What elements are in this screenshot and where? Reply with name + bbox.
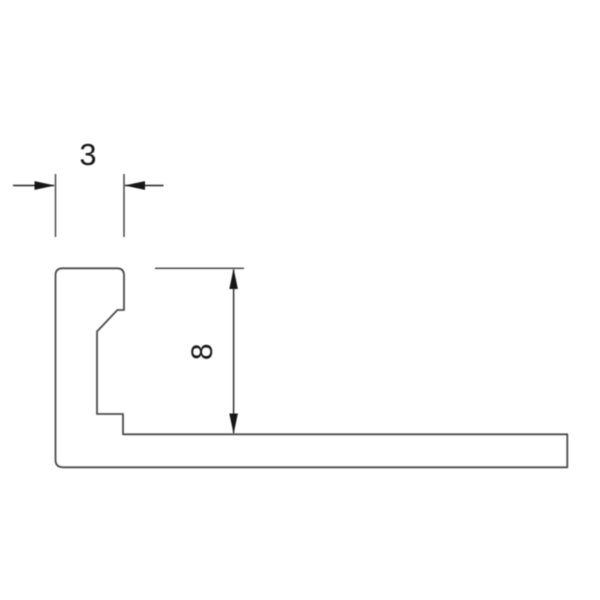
svg-text:8: 8 <box>186 343 219 360</box>
svg-text:3: 3 <box>80 138 97 172</box>
